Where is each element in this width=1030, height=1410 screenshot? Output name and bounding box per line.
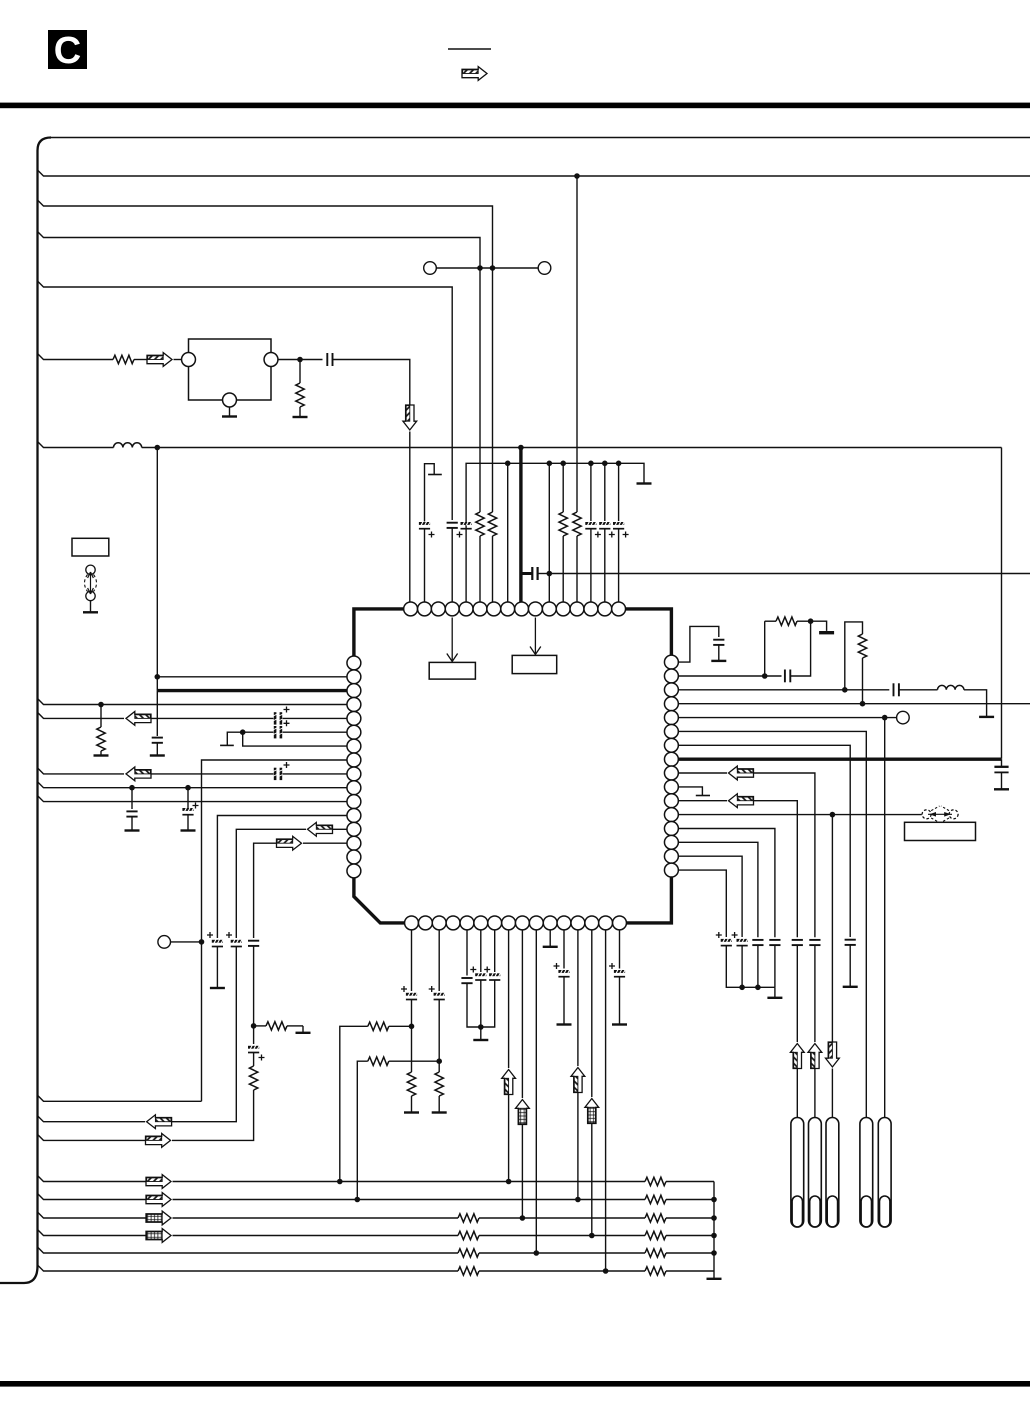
- plus T16: [623, 532, 629, 538]
- termination C21: [711, 645, 726, 661]
- wire C22 right: [790, 621, 810, 676]
- signal arrow left L9: [126, 767, 151, 781]
- wire R13 net: [678, 829, 775, 938]
- wire B8 lower: [508, 1095, 510, 1182]
- node net7 T9: [518, 445, 524, 451]
- capacitor C9 polarized: [182, 807, 193, 814]
- IC U1 outline: [354, 609, 672, 923]
- signal arrow left R9: [729, 766, 754, 780]
- node net4 crossing: [477, 265, 483, 271]
- plus C30: [732, 932, 738, 938]
- wire T6 to pin: [479, 536, 481, 602]
- wire C29 down: [757, 945, 759, 987]
- node B6 rail: [478, 1024, 484, 1030]
- resistor on T7 column: [488, 512, 496, 536]
- node rail T11: [547, 461, 553, 467]
- capacitor C16: [461, 978, 472, 983]
- wire C17 down: [480, 980, 482, 1027]
- wire T8 column: [507, 463, 509, 602]
- wire net L13: [236, 829, 306, 938]
- wire loop bottom: [38, 1095, 202, 1101]
- node left column L2: [155, 674, 161, 680]
- node W4 common: [711, 1233, 717, 1239]
- capacitor C15 polarized: [434, 992, 445, 999]
- wire net W6: [38, 1265, 459, 1271]
- wire W3 run: [173, 1217, 459, 1219]
- node W5 B10: [534, 1250, 540, 1256]
- capacitor C10 polarized: [212, 939, 223, 946]
- signal arrow up B8: [502, 1070, 516, 1095]
- resistor R4: [254, 1022, 303, 1030]
- wire T9 thick column: [519, 448, 522, 603]
- glyph step T2: [425, 464, 442, 602]
- internal block A: [429, 662, 475, 679]
- bottom rule: [0, 1381, 1030, 1387]
- test point TP2: [538, 262, 551, 275]
- signal arrow right W4 crosshatch: [146, 1229, 171, 1243]
- ground common: [707, 1271, 722, 1279]
- test point TP4: [897, 711, 910, 724]
- wire L6 to pin: [283, 731, 348, 733]
- wire net W5: [38, 1247, 459, 1253]
- signal arrow up B14 crosshatch: [585, 1099, 599, 1124]
- header signal-flow arrow: [462, 67, 487, 81]
- wire net L10: [38, 782, 348, 788]
- wire AF out: [549, 573, 1030, 575]
- wire net7 supply: [38, 442, 114, 448]
- wire L14 lower column: [172, 1090, 254, 1140]
- wire W5 to common: [666, 1252, 714, 1254]
- wire T15 column: [604, 463, 606, 521]
- variable connector symbol: [85, 565, 97, 601]
- wire T7 to pin: [492, 536, 494, 602]
- capacitor C18 polarized: [489, 973, 500, 980]
- svg-text:C: C: [54, 30, 81, 72]
- wire R18 to node: [389, 1060, 439, 1062]
- wire R5 net: [678, 717, 896, 719]
- ground connector symbol: [83, 601, 98, 613]
- signal arrow right W1: [146, 1175, 171, 1189]
- wire R9 corner: [754, 773, 815, 937]
- wire C8 stub: [131, 788, 133, 809]
- wire B14 lower: [591, 1124, 593, 1236]
- ground R19: [432, 1096, 447, 1113]
- capacitor C25: [994, 759, 1008, 772]
- capacitor C30 polarized: [737, 938, 748, 945]
- node rail T16: [616, 461, 622, 467]
- signal arrow left L13: [308, 822, 333, 836]
- capacitor C1 series: [327, 353, 332, 366]
- wire right edge column: [1001, 448, 1003, 759]
- node R2: [762, 673, 768, 679]
- wire R16 to node: [389, 1025, 412, 1027]
- capacitor C26: [809, 940, 820, 945]
- node W6 B15: [603, 1268, 609, 1274]
- capacitor C20 polarized: [614, 969, 625, 976]
- plus C18: [484, 967, 490, 973]
- wire T16 column: [618, 463, 620, 521]
- wire net7 main run: [142, 447, 1002, 449]
- resistor R6: [645, 1177, 666, 1185]
- IC U1 right pins: [664, 655, 678, 877]
- wire T16 to pin: [618, 529, 620, 602]
- wire R3 net: [678, 689, 889, 691]
- label box J1: [905, 822, 976, 840]
- wire R9 net: [678, 772, 727, 774]
- wire R14 net: [678, 842, 758, 937]
- wire B9 lower: [521, 1125, 523, 1219]
- wire C12 down: [253, 946, 255, 1026]
- wire R2 loop up: [764, 621, 766, 676]
- resistor on T12 column: [559, 512, 567, 536]
- wire net L14b bus: [38, 1134, 146, 1140]
- signal arrow right W2: [146, 1193, 171, 1207]
- label box component: [72, 538, 109, 556]
- ground C8: [125, 817, 140, 831]
- wire net5: [38, 281, 453, 450]
- wire B3 column: [438, 930, 440, 991]
- wire to pin L2: [157, 676, 347, 678]
- ground C20: [612, 977, 627, 1025]
- internal arrow to block B: [530, 618, 541, 655]
- IC U1 left pins: [347, 656, 361, 878]
- wire T14 to pin: [590, 529, 592, 602]
- wire R1 net: [678, 626, 719, 662]
- resistor R16: [368, 1022, 389, 1030]
- wire L9 to pin: [283, 773, 348, 775]
- wire R2 net: [678, 675, 781, 677]
- wire net W3: [38, 1212, 147, 1218]
- top rule: [0, 103, 1030, 109]
- ground C19: [557, 977, 572, 1025]
- resistor on T13 column: [573, 512, 581, 536]
- ground C2: [150, 743, 165, 756]
- capacitor C24: [845, 940, 856, 945]
- node net2/T13: [574, 173, 580, 179]
- resistor R5: [249, 1053, 257, 1091]
- internal block B: [512, 655, 557, 673]
- wire T13 column: [576, 176, 578, 512]
- wire net6 input: [38, 354, 114, 360]
- signal arrow down R12: [826, 1042, 840, 1067]
- wire net W4: [38, 1230, 147, 1236]
- resistor on T6 column: [476, 512, 484, 536]
- wire W4 run: [173, 1235, 459, 1237]
- wire net L14: [254, 843, 278, 938]
- signal arrow right L14: [277, 836, 302, 850]
- node rail T8: [505, 461, 511, 467]
- ground right rail: [767, 987, 782, 998]
- wire net1 top: [51, 137, 1030, 139]
- wire net4: [38, 232, 481, 513]
- wire B1 column: [411, 930, 413, 991]
- wire W4 to common: [666, 1235, 714, 1237]
- wire B1 branch: [340, 1026, 368, 1181]
- wire L13 to pin: [333, 828, 348, 830]
- node gnd rail c30: [739, 985, 745, 991]
- wire W6 to common: [666, 1270, 714, 1272]
- wire TP1 to TP2: [436, 267, 538, 269]
- wire R21 down: [862, 658, 864, 704]
- wire L9 mid: [151, 773, 274, 775]
- wire R11 corner: [754, 801, 798, 938]
- capacitor C11 polarized: [231, 939, 242, 946]
- plus C17: [470, 967, 476, 973]
- inductor L2: [938, 685, 964, 689]
- wire net L5: [38, 712, 125, 718]
- wire R3 stub: [100, 705, 102, 728]
- node R20: [808, 618, 814, 624]
- wire B5 column: [466, 930, 468, 976]
- node W1 colA: [337, 1179, 343, 1185]
- wire R9 to jack: [814, 1069, 816, 1118]
- node loop TP: [199, 939, 205, 945]
- resistor R7: [645, 1195, 666, 1203]
- plus C3: [457, 532, 463, 538]
- plus C31: [716, 932, 722, 938]
- node rail T15: [602, 461, 608, 467]
- capacitor C23: [894, 683, 899, 696]
- bus trunk: [0, 138, 51, 1284]
- node L14 bias: [251, 1023, 257, 1029]
- wire filter out: [278, 359, 323, 361]
- wire common collector: [713, 1182, 715, 1272]
- wire R7 net: [678, 745, 850, 937]
- signal arrow left R11: [729, 794, 754, 808]
- wire W3 mid: [479, 1217, 645, 1219]
- wire R4 net: [678, 703, 1030, 705]
- plus C11: [226, 932, 232, 938]
- wire net L4: [38, 699, 348, 705]
- jack pin P3: [826, 1118, 839, 1228]
- wire C27 down: [796, 945, 798, 1042]
- plus C15: [429, 986, 435, 992]
- resistor R15: [645, 1267, 666, 1275]
- wire R5 column: [884, 718, 886, 1118]
- ceramic filter pin 3: [264, 353, 278, 367]
- resistor R9: [645, 1214, 666, 1222]
- wire R11 to jack: [796, 1069, 798, 1118]
- signal arrow left L5: [126, 712, 151, 726]
- capacitor C22: [785, 670, 790, 683]
- glyph step L6 ground: [220, 732, 243, 745]
- signal arrow right W3 crosshatch: [146, 1211, 171, 1225]
- resistor R21: [858, 634, 866, 658]
- node rail T14: [588, 461, 594, 467]
- capacitor C2: [152, 738, 163, 743]
- capacitor C12: [248, 941, 259, 946]
- wire B14 column: [591, 930, 593, 1097]
- wire net2: [38, 170, 1030, 176]
- wire B3 branch: [357, 1061, 368, 1199]
- ground R2: [293, 407, 308, 417]
- wire C14 down: [411, 1000, 413, 1073]
- node L10 c9: [185, 785, 191, 791]
- wire B8 column: [508, 930, 510, 1068]
- wire W1 run: [173, 1181, 646, 1183]
- wire net L9: [38, 768, 125, 774]
- wire net L11: [38, 796, 348, 802]
- capacitor C31 polarized: [721, 938, 732, 945]
- jack pin P1: [791, 1118, 804, 1228]
- wire C15 down: [438, 1000, 440, 1073]
- wire T15 to pin: [604, 529, 606, 602]
- wire thick to pin L3: [157, 689, 347, 692]
- internal arrow to block A: [447, 618, 458, 662]
- node C4 T11: [547, 571, 553, 577]
- capacitor C19 polarized: [558, 969, 569, 976]
- capacitor C29: [752, 940, 763, 945]
- plus C5: [284, 707, 290, 713]
- ground R17: [404, 1096, 419, 1113]
- wire C1 to corner: [333, 360, 410, 406]
- resistor R19: [435, 1072, 443, 1096]
- node common W2: [711, 1197, 717, 1203]
- resistor R3: [97, 727, 105, 751]
- wire T12 column: [562, 463, 564, 512]
- ground B6 rail: [473, 1027, 488, 1040]
- wire net L12: [217, 816, 347, 939]
- plus C6: [284, 720, 290, 726]
- termination C24: [843, 945, 858, 987]
- wire T4 column lower: [451, 450, 453, 520]
- plus T2: [429, 532, 435, 538]
- capacitor C28: [769, 940, 780, 945]
- wire C28 down: [774, 945, 776, 987]
- node filter out: [297, 357, 303, 363]
- wire W4 mid: [479, 1235, 645, 1237]
- node L6 junction: [240, 729, 246, 735]
- inductor L1: [114, 443, 142, 448]
- wire stub cap below left column: [156, 691, 158, 736]
- wire C16 down: [467, 983, 481, 1027]
- node W1 B8: [506, 1179, 512, 1185]
- plus C20: [609, 963, 615, 969]
- wire B13 lower: [577, 1093, 579, 1200]
- glyph step R10: [678, 787, 710, 796]
- capacitor series C7 polarized: [273, 768, 284, 780]
- wire B13 column: [577, 930, 579, 1066]
- ground R3: [94, 751, 109, 756]
- wire bias bridge: [845, 622, 863, 692]
- plus T15: [609, 532, 615, 538]
- capacitor C17 polarized: [475, 973, 486, 980]
- capacitor C8: [126, 811, 137, 816]
- plus C14: [401, 986, 407, 992]
- wire C18 down: [481, 980, 495, 1027]
- signal arrow up R9: [808, 1044, 822, 1069]
- wire L2 corner: [964, 690, 987, 717]
- signal arrow up B13: [571, 1068, 585, 1093]
- capacitor polarized T16: [613, 521, 624, 528]
- wire W2 run: [173, 1199, 646, 1201]
- node L10 c8: [129, 785, 135, 791]
- wire B7 column: [494, 930, 496, 972]
- capacitor C14 polarized: [406, 992, 417, 999]
- wire T12 to pin: [562, 536, 564, 602]
- wire R6 net: [678, 731, 866, 1117]
- node net7 left column: [155, 445, 161, 451]
- wire W3 to common: [666, 1217, 714, 1219]
- plus C13: [259, 1055, 265, 1061]
- ceramic filter pin 1: [182, 353, 196, 367]
- ground L2: [979, 716, 994, 718]
- IC U1 bottom pins: [405, 916, 627, 930]
- node W4 B14: [589, 1233, 595, 1239]
- wire L5 to pin: [283, 717, 348, 719]
- node rail T12: [560, 461, 566, 467]
- resistor R17: [407, 1072, 415, 1096]
- capacitor polarized T2: [419, 521, 430, 528]
- wire W6 mid: [479, 1270, 645, 1272]
- resistor R2: [296, 383, 304, 407]
- plus C10: [207, 932, 213, 938]
- node L4 resistor tap: [98, 702, 104, 708]
- resistor R12: [458, 1249, 479, 1257]
- jack pin P4: [860, 1118, 873, 1228]
- page label box C: [48, 30, 87, 72]
- ceramic filter pin 2: [223, 393, 237, 407]
- header separator line: [448, 48, 491, 50]
- wire L14 to pin: [303, 842, 347, 844]
- capacitor series C5 polarized: [273, 712, 284, 724]
- node R3: [842, 687, 848, 693]
- wire net W2: [38, 1194, 147, 1200]
- wire C23 to L2: [899, 689, 938, 691]
- wire R15 net: [678, 856, 742, 937]
- signal arrow up B9 crosshatch: [516, 1100, 530, 1125]
- capacitor on T4 column: [447, 523, 458, 528]
- node net3 crossing: [490, 265, 496, 271]
- wire B9 column: [521, 930, 523, 1098]
- wire C9 stub: [187, 788, 189, 808]
- wire T1 column: [409, 432, 411, 603]
- test point TP3: [158, 936, 171, 949]
- ground R20: [811, 621, 835, 633]
- wire R11 net: [678, 800, 727, 802]
- wire net3: [38, 200, 493, 512]
- wire R12 to jack: [831, 1069, 833, 1118]
- capacitor C13 polarized: [248, 1026, 259, 1053]
- wire B16 column: [619, 930, 621, 969]
- resistor R13: [645, 1249, 666, 1257]
- ground C25: [994, 772, 1009, 789]
- capacitor C27: [792, 940, 803, 945]
- wire B15 column: [605, 930, 607, 1271]
- node W3 common: [711, 1215, 717, 1221]
- wire W5 mid: [479, 1252, 645, 1254]
- resistor R11: [645, 1231, 666, 1239]
- ground R4: [296, 1026, 311, 1033]
- wire T11 column: [548, 463, 550, 602]
- resistor R20: [765, 617, 811, 625]
- plus C9: [193, 803, 199, 809]
- IC U1 top pins: [404, 602, 626, 616]
- wire R12 column: [831, 815, 833, 1042]
- signal arrow right net L14b: [146, 1134, 171, 1148]
- wire C30 down: [741, 946, 743, 988]
- ground filter: [222, 407, 237, 417]
- plus C19: [554, 963, 560, 969]
- wire R12 net: [678, 814, 921, 816]
- wire left column x157: [156, 448, 158, 691]
- node B3: [436, 1058, 442, 1064]
- wire TP3 link: [171, 941, 202, 943]
- wire W2 to common: [666, 1199, 714, 1201]
- signal arrow left net L13b: [147, 1115, 172, 1129]
- wire C31 down: [726, 946, 775, 988]
- node R12: [830, 812, 836, 818]
